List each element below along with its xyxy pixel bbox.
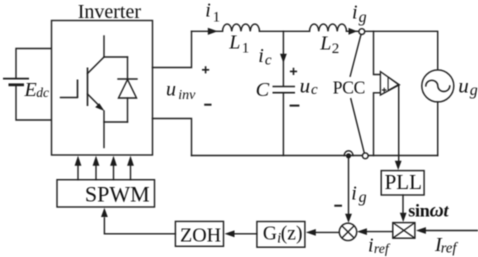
svg-text:i: i: [352, 1, 358, 23]
node arrow into ZOH: [225, 230, 235, 237]
node ic arrow: [280, 54, 287, 63]
voltage sensor U1: [374, 31, 400, 155]
wire PLL to multiplier: [402, 195, 404, 213]
svg-text:1: 1: [213, 9, 221, 25]
capacitor branch wire: [282, 31, 284, 86]
node arrow into multiplier: [400, 213, 407, 222]
svg-text:g: g: [359, 9, 367, 26]
svg-text:u: u: [166, 78, 176, 100]
wire Iref input: [425, 230, 478, 232]
node arrow into summer top: [345, 214, 352, 223]
svg-text:dc: dc: [36, 85, 49, 100]
wire SPWM gate arrow 4: [127, 156, 134, 180]
wire summer to Gi(z): [316, 231, 340, 233]
svg-text:ref: ref: [374, 241, 391, 256]
node arrow into multiplier right: [416, 227, 426, 234]
controller Gi(z) box: [257, 222, 305, 248]
svg-text:2: 2: [332, 41, 340, 57]
wire Gi(z) to ZOH: [234, 233, 257, 235]
svg-text:E: E: [24, 79, 37, 101]
svg-text:g: g: [470, 82, 478, 99]
label + (uc): [290, 68, 297, 75]
svg-text:i: i: [258, 45, 264, 67]
wire L2 to PCC: [347, 30, 359, 32]
wire capacitor to bus: [282, 93, 284, 156]
svg-text:G: G: [263, 224, 277, 245]
sine wave: [426, 80, 450, 91]
wire inverter output bottom: [153, 119, 192, 156]
inverter box: [52, 21, 153, 156]
ZOH box: [175, 221, 223, 246]
svg-text:PCC: PCC: [333, 78, 365, 98]
switch blade lower: [351, 99, 364, 153]
svg-text:i: i: [351, 182, 357, 204]
label - (uc): [290, 105, 300, 107]
svg-text:u: u: [300, 73, 311, 97]
node arrow into SPWM: [101, 208, 108, 217]
node arrow into PLL: [395, 161, 402, 170]
svg-text:ZOH: ZOH: [180, 224, 221, 246]
svg-text:sinωt: sinωt: [408, 201, 449, 222]
node crossover hop: [344, 151, 353, 156]
multiplier M1: [393, 223, 415, 239]
svg-text:PLL: PLL: [385, 170, 422, 194]
svg-text:L: L: [228, 32, 240, 54]
wire sensor to PLL: [398, 85, 400, 162]
diode D1: [104, 57, 137, 122]
inductor L2: [310, 24, 347, 31]
node arrow into Gi(z): [306, 229, 316, 236]
svg-text:c: c: [311, 82, 318, 98]
PLL box: [381, 171, 424, 195]
svg-text:C: C: [256, 79, 270, 101]
node PCC (bottom contact): [362, 153, 368, 159]
wire ug to bus: [437, 102, 439, 156]
svg-text:ref: ref: [441, 241, 459, 257]
wire PCC to grid corner: [365, 31, 438, 70]
wire inverter output top: [153, 31, 192, 67]
svg-text:i: i: [205, 0, 211, 21]
summer S1: [339, 223, 356, 240]
svg-text:i: i: [368, 235, 374, 257]
svg-text:SPWM: SPWM: [85, 182, 150, 207]
SPWM box: [57, 180, 155, 207]
wire ig feedback: [348, 156, 350, 214]
svg-text:g: g: [359, 189, 367, 206]
label - (uinv): [204, 104, 211, 106]
wire multiplier to summer: [367, 231, 393, 233]
switch blade upper: [350, 35, 361, 77]
node arrow into summer right: [357, 228, 367, 235]
label + (uinv): [202, 66, 209, 73]
label - (summer): [334, 205, 342, 207]
voltage source ug: [422, 70, 454, 102]
svg-text:Inverter: Inverter: [78, 1, 142, 23]
svg-text:inv: inv: [178, 88, 196, 103]
node junction dot: [346, 153, 351, 158]
wire ZOH to SPWM: [104, 218, 175, 234]
inductor L1: [223, 24, 260, 31]
node i1 arrow: [208, 28, 218, 35]
svg-text:1: 1: [242, 41, 250, 57]
svg-text:L: L: [319, 33, 331, 55]
wire L1 to L2: [260, 30, 310, 32]
svg-text:c: c: [265, 53, 272, 69]
battery Edc: [3, 49, 52, 121]
svg-text:u: u: [458, 73, 469, 97]
capacitor C: [273, 87, 296, 93]
svg-text:(z): (z): [281, 224, 303, 245]
node ig arrow: [349, 28, 358, 35]
wire SPWM gate arrow 2: [93, 156, 100, 180]
transistor Q1 (IGBT): [61, 36, 105, 148]
node PCC (top contact): [359, 29, 365, 35]
wire SPWM gate arrow 3: [110, 156, 117, 180]
wire SPWM gate arrow 1: [75, 156, 82, 180]
wire bottom bus: [192, 155, 438, 157]
wire top rail: [192, 30, 223, 32]
